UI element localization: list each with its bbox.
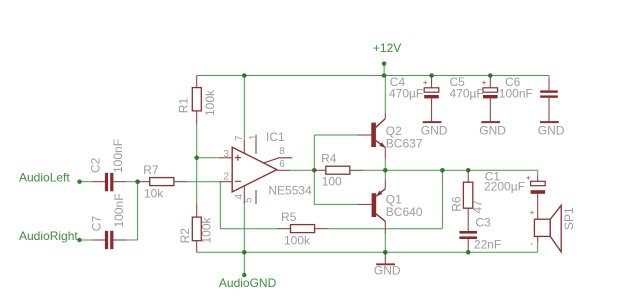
svg-text:1: 1 [248, 134, 259, 140]
svg-text:R4: R4 [321, 152, 337, 166]
svg-text:100nF: 100nF [112, 193, 126, 227]
svg-text:100nF: 100nF [111, 139, 125, 173]
svg-text:100k: 100k [200, 216, 214, 243]
svg-text:+12V: +12V [373, 41, 401, 55]
svg-text:GND: GND [479, 124, 506, 138]
svg-text:R6: R6 [449, 196, 463, 212]
svg-text:100k: 100k [284, 234, 311, 248]
svg-text:3: 3 [224, 149, 230, 160]
svg-text:R7: R7 [143, 163, 159, 177]
svg-text:470µF: 470µF [389, 87, 423, 101]
svg-text:6: 6 [279, 159, 285, 170]
svg-text:AudioRight: AudioRight [19, 229, 78, 243]
svg-text:10k: 10k [144, 186, 164, 200]
svg-text:BC640: BC640 [386, 205, 423, 219]
svg-text:GND: GND [538, 124, 565, 138]
svg-text:C3: C3 [475, 216, 491, 230]
svg-text:IC1: IC1 [266, 130, 285, 144]
svg-text:22nF: 22nF [474, 237, 501, 251]
svg-text:GND: GND [374, 264, 401, 278]
svg-text:8: 8 [279, 146, 285, 157]
svg-text:R1: R1 [177, 98, 191, 114]
svg-text:C2: C2 [89, 157, 103, 173]
svg-text:GND: GND [421, 124, 448, 138]
svg-text:470µF: 470µF [450, 87, 484, 101]
svg-text:100: 100 [322, 174, 342, 188]
svg-text:BC637: BC637 [386, 137, 423, 151]
svg-text:AudioLeft: AudioLeft [19, 171, 70, 185]
svg-text:NE5534: NE5534 [268, 184, 312, 198]
svg-text:2200µF: 2200µF [484, 180, 525, 194]
svg-text:5: 5 [244, 197, 255, 203]
svg-text:2: 2 [224, 171, 230, 182]
svg-text:100nF: 100nF [499, 87, 533, 101]
svg-text:AudioGND: AudioGND [219, 276, 277, 290]
svg-text:C7: C7 [90, 216, 104, 232]
svg-text:R2: R2 [178, 228, 192, 244]
svg-text:SP1: SP1 [562, 207, 576, 230]
svg-text:100k: 100k [203, 89, 217, 116]
svg-text:7: 7 [234, 135, 245, 141]
svg-text:R5: R5 [281, 210, 297, 224]
svg-text:47: 47 [470, 200, 484, 214]
